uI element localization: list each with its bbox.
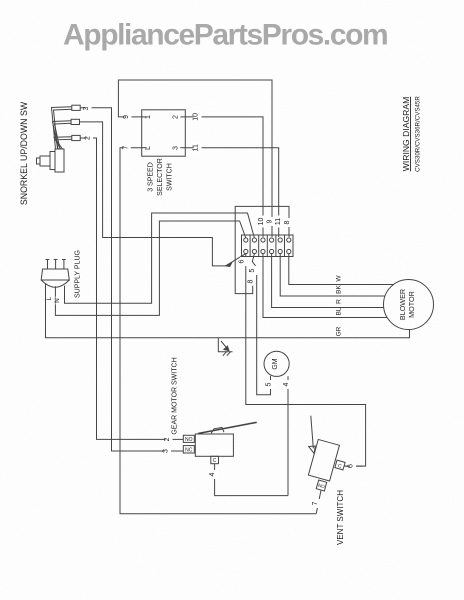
label 2 on gear switch NO wire xyxy=(166,435,173,444)
svg-text:3: 3 xyxy=(173,146,180,150)
terminal block bottom row circles xyxy=(244,249,291,253)
gear motor switch lever xyxy=(198,422,257,433)
supply plug P1 body xyxy=(41,269,69,287)
svg-text:8: 8 xyxy=(284,220,291,224)
svg-text:2: 2 xyxy=(85,136,92,140)
wire netL: plug L pin to terminal block col1 xyxy=(55,221,245,315)
vent switch C terminal box xyxy=(335,460,345,470)
wire BK: block col5 bottom to blower motor xyxy=(280,254,385,296)
vent switch NO terminal box xyxy=(316,480,326,491)
wire netN: plug N pin to terminal block col2 xyxy=(65,213,255,303)
svg-text:L: L xyxy=(46,296,53,300)
svg-text:7: 7 xyxy=(122,146,129,150)
blower motor M1 circle xyxy=(384,280,434,330)
wire net6 diagonal: block col1 bottom to junction with arrow xyxy=(226,254,246,266)
wire net10: selector pin2 to terminal block col3 xyxy=(185,117,263,237)
wire R: block col4 bottom to blower motor xyxy=(272,254,384,308)
wire net6: block col1 bottom down, right, down to vent switch C xyxy=(246,254,366,467)
svg-text:2: 2 xyxy=(173,115,180,119)
label 3 on snorkel T3 wire xyxy=(85,104,92,113)
chassis ground symbol xyxy=(218,338,232,356)
selector terminal tick pin3 xyxy=(180,147,185,149)
label 7 on selector pinL wire xyxy=(124,143,131,152)
svg-text:3: 3 xyxy=(163,449,170,453)
svg-text:R: R xyxy=(336,299,343,304)
svg-text:9: 9 xyxy=(123,115,130,119)
label 6 on vent switch C wire xyxy=(349,462,356,471)
snorkel switch lead to terminal 3 (top) xyxy=(52,107,72,149)
wire net7: vent switch NO lead down to bottom run xyxy=(316,490,321,513)
svg-text:BL: BL xyxy=(336,307,343,315)
gear motor switch NC terminal box xyxy=(183,446,194,453)
terminal block dividers xyxy=(250,235,284,257)
svg-text:1: 1 xyxy=(145,115,152,119)
label 6 below block col1 xyxy=(240,257,247,266)
svg-text:11: 11 xyxy=(193,144,200,151)
svg-text:7: 7 xyxy=(312,501,319,505)
wire net2: snorkel T2 to gear motor switch NO xyxy=(80,138,183,439)
wire net11: selector pin3 to terminal block col5 xyxy=(185,148,278,237)
svg-text:SNORKEL UP/DOWN SW: SNORKEL UP/DOWN SW xyxy=(19,101,29,205)
svg-text:11: 11 xyxy=(275,218,282,225)
gear motor lamp GM circle xyxy=(264,351,289,376)
svg-text:10: 10 xyxy=(258,218,265,226)
label BLOWER MOTOR xyxy=(398,289,416,320)
svg-text:BLOWER: BLOWER xyxy=(398,289,407,320)
svg-text:WIRING DIAGRAM: WIRING DIAGRAM xyxy=(401,97,411,171)
svg-text:MOTOR: MOTOR xyxy=(407,291,416,318)
label 3 SPEED SELECTOR SWITCH xyxy=(148,158,174,196)
label 11 above block col5 xyxy=(277,216,284,228)
svg-text:GM: GM xyxy=(272,358,279,369)
svg-text:L: L xyxy=(145,146,152,150)
svg-text:2: 2 xyxy=(164,437,171,441)
svg-text:N: N xyxy=(54,298,61,303)
svg-text:VENT SWITCH: VENT SWITCH xyxy=(336,490,345,545)
svg-text:5: 5 xyxy=(266,382,273,386)
svg-text:CVS30R/CVS36R/CVS45R: CVS30R/CVS36R/CVS45R xyxy=(415,96,422,172)
wire net7: selector pinL down and along bottom to vent switch NO xyxy=(120,148,316,514)
wire net-mid: snorkel middle terminal down to net6 junction xyxy=(80,122,226,266)
vent switch lever xyxy=(309,416,316,454)
svg-text:9: 9 xyxy=(267,219,274,223)
svg-text:5: 5 xyxy=(249,268,256,272)
label 7 on vent switch NO wire xyxy=(314,499,321,508)
snorkel switch lead to terminal 2 (bottom) xyxy=(54,137,72,149)
label 9 on selector pin1 wire xyxy=(125,112,132,121)
svg-text:GR: GR xyxy=(336,326,343,336)
snorkel connector terminal 3 xyxy=(72,105,80,110)
snorkel connector terminal 2 xyxy=(72,135,80,140)
svg-text:4: 4 xyxy=(283,382,290,386)
label 4 on gear switch C wire xyxy=(210,470,219,479)
snorkel switch lead to middle terminal xyxy=(53,121,72,149)
label 10 on selector pin2 wire xyxy=(194,111,202,123)
wire ground/GR: plug earth pin down, along bottom, to blower motor xyxy=(46,283,410,338)
selector terminal tick pin2 xyxy=(180,116,185,118)
label 10 above block col3 xyxy=(260,216,267,228)
svg-text:3: 3 xyxy=(83,106,90,110)
label 11 on selector pin3 wire xyxy=(194,142,202,154)
label 4 on GM right lead xyxy=(285,380,292,389)
svg-text:SUPPLY PLUG: SUPPLY PLUG xyxy=(75,250,82,298)
wire BL: block col3 bottom to blower motor xyxy=(263,254,387,318)
svg-text:6: 6 xyxy=(239,259,246,263)
svg-text:SELECTOR: SELECTOR xyxy=(157,158,164,196)
svg-text:W: W xyxy=(336,275,343,282)
label 8 above block col6 xyxy=(285,218,292,227)
3 speed selector switch U1 box xyxy=(142,110,186,156)
snorkel connector terminal mid xyxy=(71,119,79,124)
label 5 on GM left lead xyxy=(267,380,274,389)
selector terminal tick pin1 xyxy=(142,116,147,118)
label 2 on snorkel T2 wire xyxy=(87,134,94,143)
wire net9: selector pin1 up over top to terminal block col4 xyxy=(118,80,272,237)
gear motor switch NO terminal box xyxy=(183,435,194,442)
svg-text:NC: NC xyxy=(185,448,193,454)
wire net3: snorkel T3 to gear motor switch NC xyxy=(80,108,183,451)
wire net6: vent switch C lead xyxy=(345,465,363,467)
wire net4: GM right lead down to bottom run xyxy=(287,376,289,495)
svg-text:8: 8 xyxy=(247,279,254,283)
selector terminal tick pinL xyxy=(142,147,147,149)
gear motor switch S2 body xyxy=(195,434,233,456)
supply plug P1 prongs xyxy=(46,260,66,270)
svg-text:NO: NO xyxy=(185,437,193,443)
wire net8: stub with jog up to terminal block col6 xyxy=(235,206,289,293)
svg-text:C: C xyxy=(213,458,217,464)
label N on plug neutral wire xyxy=(56,297,62,305)
svg-text:6: 6 xyxy=(348,464,355,468)
svg-text:10: 10 xyxy=(193,113,200,121)
wire net5: block col2 bottom jog down to GM lamp xyxy=(252,254,270,395)
gear motor switch C terminal box xyxy=(211,456,219,463)
svg-text:SWITCH: SWITCH xyxy=(167,163,174,191)
wire W: block col6 bottom to blower motor xyxy=(289,254,394,285)
svg-text:4: 4 xyxy=(209,472,216,476)
snorkel up/down switch SW1 body xyxy=(37,149,65,172)
label 9 above block col4 xyxy=(268,217,275,226)
terminal block top row circles xyxy=(244,238,291,242)
wire net4: gear switch C terminal to GM xyxy=(215,464,288,496)
svg-text:GEAR MOTOR SWITCH: GEAR MOTOR SWITCH xyxy=(172,357,179,434)
svg-text:3 SPEED: 3 SPEED xyxy=(148,162,155,192)
label 5 below block col2 xyxy=(251,266,258,275)
svg-text:AppliancePartsPros.com: AppliancePartsPros.com xyxy=(63,19,387,52)
label 3 on gear switch NC wire xyxy=(164,447,171,456)
terminal block TB1 outline xyxy=(242,235,294,257)
svg-text:BK: BK xyxy=(336,285,343,294)
net6 junction arrowhead xyxy=(226,263,232,266)
vent switch S3 tilted body xyxy=(308,439,339,481)
